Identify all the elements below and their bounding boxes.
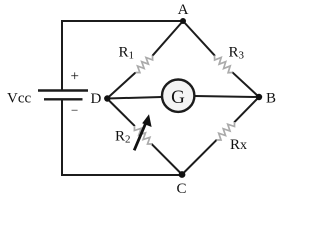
svg-text:G: G bbox=[171, 87, 185, 108]
svg-text:D: D bbox=[91, 91, 102, 107]
svg-text:+: + bbox=[71, 69, 79, 85]
svg-text:B: B bbox=[266, 91, 276, 107]
svg-text:−: − bbox=[71, 103, 78, 118]
svg-text:Vcc: Vcc bbox=[7, 91, 31, 107]
svg-text:R2: R2 bbox=[115, 129, 131, 146]
svg-text:C: C bbox=[176, 181, 186, 197]
svg-text:Rx: Rx bbox=[230, 137, 247, 153]
svg-text:R1: R1 bbox=[119, 45, 135, 62]
svg-text:A: A bbox=[178, 2, 189, 18]
svg-text:R3: R3 bbox=[229, 45, 245, 62]
